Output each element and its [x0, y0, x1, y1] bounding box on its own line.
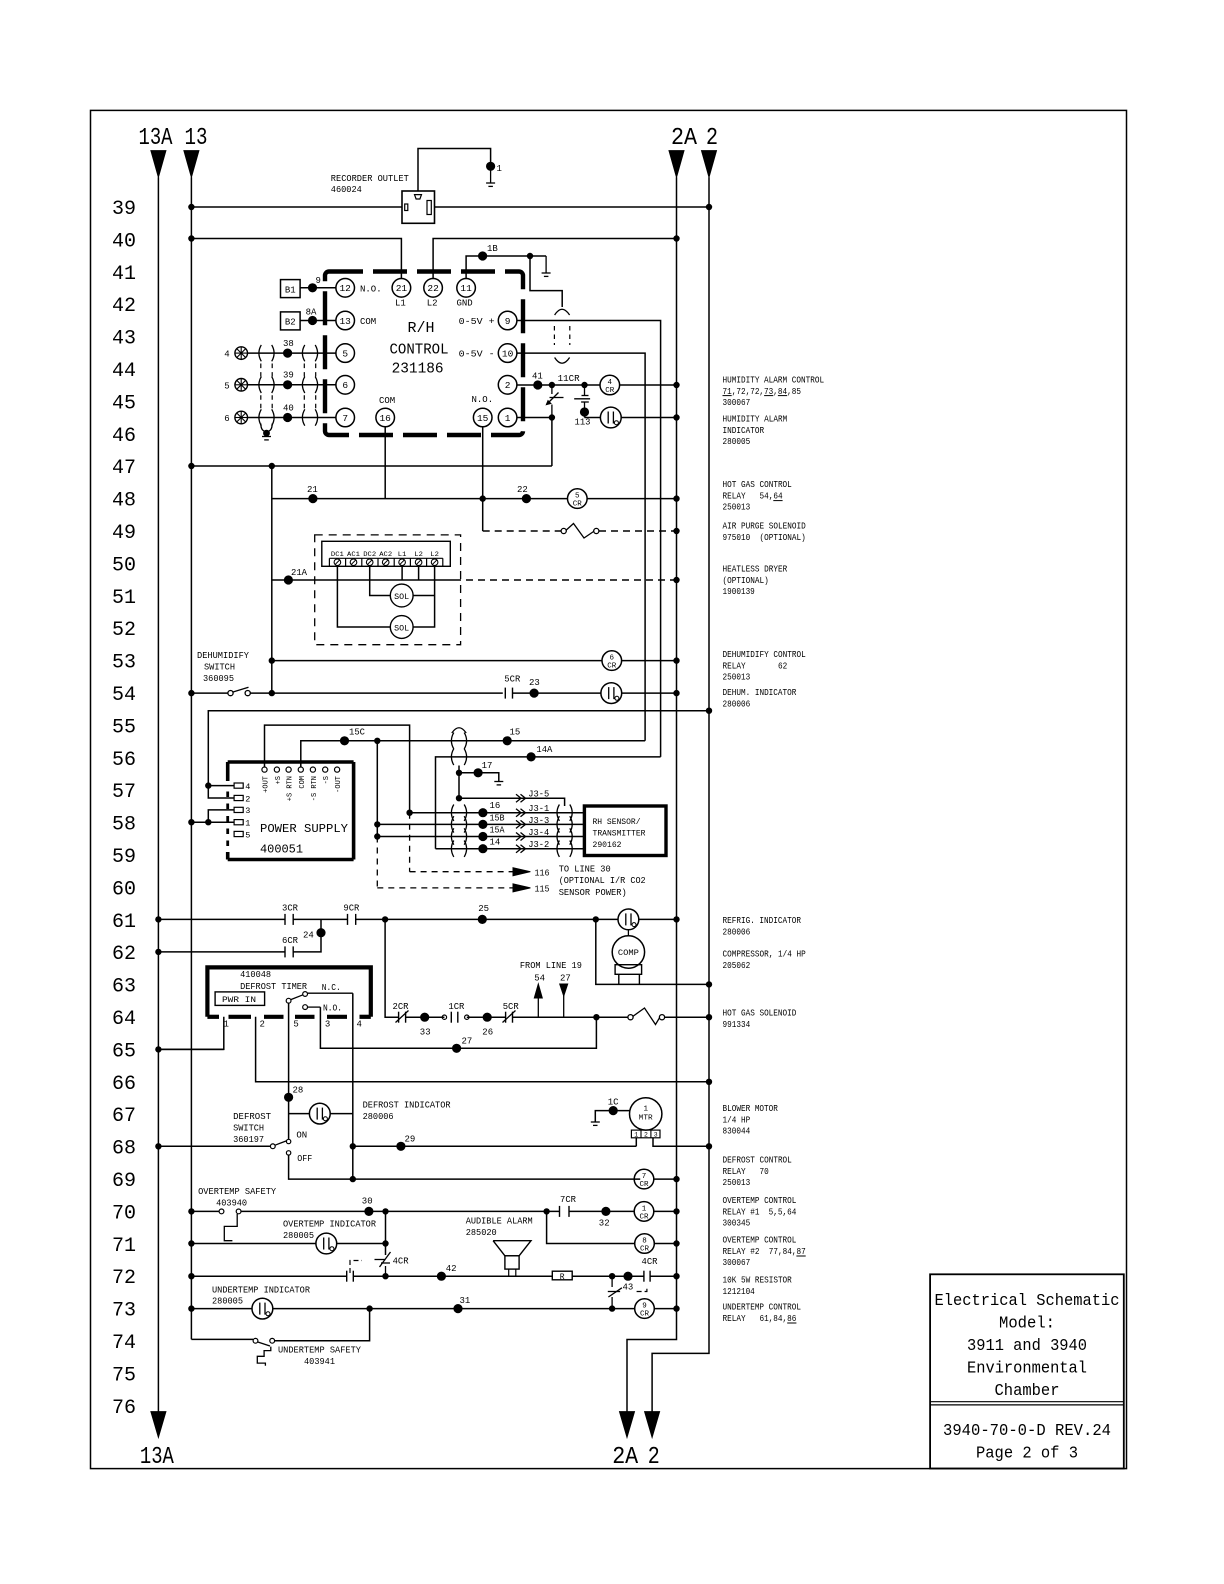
cable shield 9/10 wires [555, 309, 570, 315]
svg-text:MTR: MTR [639, 1115, 654, 1123]
svg-text:4: 4 [608, 379, 613, 387]
svg-text:9CR: 9CR [343, 904, 360, 914]
svg-text:10: 10 [502, 349, 514, 360]
svg-text:1: 1 [505, 413, 511, 424]
svg-text:6CR: 6CR [282, 936, 299, 946]
svg-text:HUMIDITY ALARM CONTROL: HUMIDITY ALARM CONTROL [723, 376, 825, 386]
node 2A top arrow [669, 151, 684, 178]
wire outlet to node 1 [418, 149, 491, 192]
svg-text:39: 39 [112, 198, 136, 221]
svg-text:32: 32 [599, 1219, 610, 1229]
svg-text:-S RTN: -S RTN [311, 776, 319, 801]
node 15 [503, 737, 511, 745]
wire B2 to pin 13 [300, 320, 336, 322]
wire rung 53 [272, 660, 602, 662]
junction 16 line [407, 810, 412, 815]
junction rung 70 indicator drop [383, 1209, 388, 1214]
wire pin 16 down [384, 427, 386, 499]
svg-text:RELAY 62: RELAY 62 [723, 661, 788, 671]
junction rung 72 43 drop [609, 1274, 614, 1279]
svg-text:45: 45 [112, 392, 136, 415]
wire node 21A line [272, 579, 454, 581]
svg-text:26: 26 [482, 1028, 493, 1038]
hot gas solenoid valve [628, 1015, 633, 1020]
wire refrig indicator to bus 2A [639, 918, 677, 920]
defrost timer PWR IN [215, 992, 265, 1006]
junction rung 73 drop [609, 1306, 614, 1311]
svg-text:J3-2: J3-2 [528, 840, 549, 850]
junction 17 branch [456, 770, 461, 775]
power supply top terminals [262, 767, 267, 772]
cable shield sensor left [451, 805, 453, 821]
svg-text:3: 3 [325, 1020, 330, 1030]
junction solenoid bus 2 [706, 1015, 711, 1020]
wire solenoid to bus 2 [665, 1016, 709, 1018]
wire timer pin 2 to rung 66 [256, 1017, 709, 1082]
svg-text:RELAY #2 77,84,87: RELAY #2 77,84,87 [723, 1247, 806, 1257]
svg-text:4CR: 4CR [393, 1257, 410, 1267]
sensor 113 element [584, 385, 586, 395]
svg-text:BLOWER MOTOR: BLOWER MOTOR [723, 1104, 779, 1114]
wire 6CR to bus 2A [622, 660, 677, 662]
svg-text:61: 61 [112, 911, 136, 934]
svg-text:71: 71 [112, 1235, 136, 1258]
svg-text:55: 55 [112, 716, 136, 739]
junction rung 40 bus 2A [674, 236, 679, 241]
junction J3-5 [456, 796, 461, 801]
cable shield sensor right [557, 805, 559, 821]
svg-text:14: 14 [490, 838, 501, 848]
svg-text:52: 52 [112, 619, 136, 642]
svg-text:12: 12 [339, 283, 351, 294]
defrost timer 410048 box [207, 967, 370, 1016]
wire bus 13A [157, 177, 159, 1411]
svg-text:300067: 300067 [723, 1258, 751, 1268]
svg-text:16: 16 [490, 801, 501, 811]
svg-text:280005: 280005 [283, 1231, 314, 1241]
node 21A [284, 576, 292, 584]
svg-text:250013: 250013 [723, 673, 751, 683]
wire rung 62 to rung 61 [293, 919, 321, 952]
wire 15B line [377, 823, 584, 825]
svg-text:L2: L2 [414, 551, 423, 558]
svg-text:FROM LINE 19: FROM LINE 19 [520, 961, 582, 971]
svg-text:40: 40 [283, 403, 294, 413]
wire rung 73 left [191, 1308, 252, 1310]
svg-text:CR: CR [573, 501, 583, 509]
svg-text:39: 39 [283, 371, 294, 381]
junction rung 48 air purge [480, 496, 485, 501]
svg-text:21A: 21A [291, 568, 308, 578]
wire rung 64 from rung 61 [385, 919, 399, 1017]
svg-text:5CR: 5CR [503, 1002, 520, 1012]
svg-text:2: 2 [648, 1444, 660, 1471]
R/H control pin 11 [457, 279, 476, 298]
R/H control pin 2 [498, 376, 517, 395]
svg-text:4: 4 [357, 1020, 362, 1030]
node 43 [624, 1272, 632, 1280]
svg-text:403941: 403941 [304, 1357, 335, 1367]
junction rung 47 dehumidify branch [269, 463, 274, 468]
svg-text:Page 2 of 3: Page 2 of 3 [976, 1445, 1078, 1464]
svg-text:COMPRESSOR, 1/4 HP: COMPRESSOR, 1/4 HP [723, 950, 806, 960]
svg-text:13: 13 [339, 316, 351, 327]
wire 7CR contact to 1CR coil [569, 1210, 634, 1212]
svg-text:RELAY 54,64: RELAY 54,64 [723, 491, 783, 501]
wire power feed loop to bus 2 [208, 711, 709, 786]
wire node 113 to humidity alarm indicator [584, 414, 586, 418]
svg-text:46: 46 [112, 425, 136, 448]
wire terminal DC2 to SOL1 [370, 566, 391, 596]
svg-text:21: 21 [307, 485, 318, 495]
svg-text:43: 43 [112, 328, 136, 351]
R/H control pin 1 [498, 408, 517, 427]
junction rung 69 pin4 line [350, 1176, 355, 1181]
wire 1B to cable shield [530, 256, 562, 307]
svg-text:1: 1 [643, 1106, 648, 1114]
wire terminal L1 down [401, 566, 403, 581]
cable shield 15/14A [451, 733, 453, 749]
wire timer pin 5 down [288, 1003, 290, 1139]
wire terminal L2a down [418, 566, 420, 581]
svg-text:HOT GAS SOLENOID: HOT GAS SOLENOID [723, 1009, 797, 1019]
relay coil 5CR [568, 489, 588, 509]
svg-text:1900139: 1900139 [723, 587, 755, 597]
wire PS +OUT to node 16 line [265, 725, 410, 813]
svg-text:21: 21 [396, 283, 408, 294]
svg-text:290162: 290162 [593, 840, 622, 850]
junction rung 70 bus 13 [189, 1209, 194, 1214]
wire 15A line [377, 836, 584, 838]
wire rung 61 mid [293, 918, 347, 920]
svg-text:8A: 8A [306, 308, 317, 318]
wire rung 54 mid [250, 692, 502, 694]
node 14A [527, 753, 535, 761]
terminal B2 [281, 312, 301, 330]
wire indicator drop vertical [385, 1211, 387, 1255]
node 9 [308, 284, 316, 292]
relay coil 6CR [602, 651, 622, 671]
svg-text:33: 33 [420, 1028, 431, 1038]
svg-text:2: 2 [706, 125, 718, 152]
svg-text:GND: GND [457, 299, 473, 309]
svg-text:AC1: AC1 [347, 551, 360, 558]
svg-text:L2: L2 [430, 551, 439, 558]
svg-text:RH SENSOR/: RH SENSOR/ [593, 817, 641, 827]
contact 9CR vertical [611, 1276, 613, 1287]
svg-text:285020: 285020 [466, 1228, 497, 1238]
svg-text:22: 22 [427, 283, 439, 294]
junction rung 72 bus 13 [189, 1274, 194, 1279]
svg-text:280006: 280006 [723, 927, 751, 937]
svg-text:RELAY 61,84,86: RELAY 61,84,86 [723, 1314, 797, 1324]
svg-text:N.C.: N.C. [322, 983, 341, 993]
svg-text:OFF: OFF [297, 1154, 312, 1164]
svg-text:6: 6 [224, 414, 229, 424]
svg-text:8: 8 [642, 1238, 647, 1246]
svg-text:REFRIG. INDICATOR: REFRIG. INDICATOR [723, 916, 802, 926]
R/H control pin 10 [498, 344, 517, 363]
wire timer pin 1 [158, 1017, 223, 1050]
R/H control pin 22 [424, 279, 443, 298]
wire rung 71 left [191, 1243, 316, 1245]
svg-text:DEFROST CONTROL: DEFROST CONTROL [723, 1156, 792, 1166]
wire pin 11 to node 1B [466, 256, 546, 279]
svg-text:15B: 15B [490, 814, 506, 824]
relay coil 1CR [634, 1202, 654, 1222]
R/H control pin 6 [336, 376, 355, 395]
svg-text:DC2: DC2 [363, 551, 376, 558]
audible alarm 285020 [493, 1241, 531, 1256]
svg-text:7: 7 [642, 1173, 647, 1181]
svg-text:250013: 250013 [723, 503, 751, 513]
wire PS COM to node 15C line [301, 741, 645, 767]
junction 1CR bus 2A [674, 1209, 679, 1214]
wire SOL1 to L2b [413, 595, 435, 597]
wire overtemp indicator to drop [337, 1243, 386, 1245]
svg-text:72: 72 [112, 1267, 136, 1290]
R/H control pin 9 [498, 311, 517, 330]
svg-text:75: 75 [112, 1364, 136, 1387]
svg-text:54: 54 [534, 974, 545, 984]
svg-text:6: 6 [610, 655, 615, 663]
node 32 [602, 1207, 610, 1215]
svg-text:Electrical Schematic: Electrical Schematic [935, 1292, 1120, 1311]
R/H control pin 7 [336, 408, 355, 427]
wire 8CR feed [547, 1211, 635, 1243]
node 1C [609, 1107, 617, 1115]
junction 4CR bus 2A [674, 382, 679, 387]
svg-text:24: 24 [303, 931, 314, 941]
relay coil 7CR [634, 1169, 654, 1189]
svg-text:9: 9 [316, 276, 321, 286]
node 15B [479, 820, 487, 828]
svg-text:J3-4: J3-4 [528, 828, 549, 838]
svg-text:231186: 231186 [392, 361, 444, 378]
svg-text:73: 73 [112, 1300, 136, 1323]
junction 6CR bus 2A [674, 658, 679, 663]
svg-text:AUDIBLE ALARM: AUDIBLE ALARM [466, 1217, 533, 1227]
node 27 rung 65 [453, 1044, 461, 1052]
svg-text:DEHUMIDIFY: DEHUMIDIFY [197, 651, 250, 661]
svg-text:1C: 1C [608, 1098, 619, 1108]
svg-text:50: 50 [112, 554, 136, 577]
wire bus 13 to PS terminal 1 [191, 821, 234, 823]
svg-text:R/H: R/H [408, 320, 435, 337]
defrost timer switch [286, 998, 291, 1003]
wire pin 10 to node 15 [517, 353, 645, 741]
dehumidify switch 360095 [228, 691, 233, 696]
wire 5CR to bus 2A [587, 498, 676, 500]
svg-text:COMP: COMP [618, 949, 639, 958]
svg-text:2: 2 [260, 1020, 265, 1030]
wire 1CR to bus 2A [654, 1210, 677, 1212]
svg-text:10K 5W RESISTOR: 10K 5W RESISTOR [723, 1276, 793, 1286]
svg-text:2: 2 [245, 794, 250, 804]
wire rung 62 left [158, 951, 285, 953]
junction 5CR bus 2A [674, 496, 679, 501]
R/H control pin 12 [336, 279, 355, 298]
svg-text:3: 3 [245, 806, 250, 816]
relay coil 9CR [635, 1299, 655, 1319]
svg-text:SOL: SOL [394, 624, 409, 633]
svg-text:57: 57 [112, 781, 136, 804]
node 14 [479, 845, 487, 853]
junction 7CR bus 2A [674, 1176, 679, 1181]
svg-text:UNDERTEMP INDICATOR: UNDERTEMP INDICATOR [212, 1285, 311, 1295]
svg-text:31: 31 [460, 1296, 471, 1306]
junction refrig bus 2A [674, 917, 679, 922]
wire terminal DC1 to SOL2 [337, 566, 390, 628]
junction 15B branch [375, 738, 380, 743]
wire node 16 line [410, 812, 585, 814]
svg-text:N.O.: N.O. [472, 395, 494, 405]
blower motor MTR [630, 1098, 662, 1130]
svg-text:47: 47 [112, 457, 136, 480]
svg-text:1212104: 1212104 [723, 1287, 755, 1297]
node 26 [483, 1013, 491, 1021]
svg-text:1: 1 [642, 1205, 647, 1213]
svg-text:56: 56 [112, 749, 136, 772]
junction rung 71 drop [383, 1241, 388, 1246]
svg-text:HUMIDITY ALARM: HUMIDITY ALARM [723, 415, 788, 425]
svg-text:POWER SUPPLY: POWER SUPPLY [260, 822, 348, 836]
svg-text:2CR: 2CR [393, 1002, 410, 1012]
svg-text:64: 64 [112, 1008, 136, 1031]
arrow node 116 [513, 868, 530, 876]
wire 115 dashed [376, 837, 378, 888]
compressor COMP [612, 936, 644, 968]
R/H control pin 21 [392, 279, 411, 298]
svg-text:13A: 13A [139, 125, 173, 152]
svg-text:74: 74 [112, 1332, 136, 1355]
svg-text:49: 49 [112, 522, 136, 545]
wire rung 73 mid [273, 1308, 635, 1310]
wire B1 to pin 12 [300, 287, 336, 289]
svg-text:ON: ON [296, 1131, 307, 1141]
svg-text:27: 27 [560, 974, 571, 984]
node 16 [479, 809, 487, 817]
node 2 top arrow [702, 151, 717, 178]
svg-text:76: 76 [112, 1397, 136, 1420]
node 113 [580, 408, 588, 416]
solenoid SOL1 [390, 584, 413, 607]
svg-text:22: 22 [517, 485, 528, 495]
svg-text:SWITCH: SWITCH [204, 663, 235, 673]
svg-text:CR: CR [607, 663, 617, 671]
RH sensor/transmitter 290162 [584, 806, 666, 856]
svg-text:CR: CR [639, 1213, 649, 1221]
air purge flow switch [561, 528, 566, 533]
wire pin 15 down [482, 427, 484, 531]
svg-text:2: 2 [505, 380, 511, 391]
svg-text:B2: B2 [285, 318, 296, 328]
svg-text:5: 5 [293, 1020, 298, 1030]
wire 1CR to 5CR [467, 1016, 506, 1018]
wire 8CR to bus 2A [654, 1243, 676, 1245]
ground at 1B [545, 256, 547, 273]
junction rung 61 defrost drop [382, 917, 387, 922]
node 31 [454, 1305, 462, 1313]
svg-text:UNDERTEMP SAFETY: UNDERTEMP SAFETY [278, 1346, 362, 1356]
svg-text:AIR PURGE SOLENOID: AIR PURGE SOLENOID [723, 522, 806, 532]
junction 8CR bus 2A [674, 1241, 679, 1246]
svg-text:975010 (OPTIONAL): 975010 (OPTIONAL) [723, 533, 806, 543]
svg-text:3CR: 3CR [282, 904, 299, 914]
svg-text:HOT GAS CONTROL: HOT GAS CONTROL [723, 480, 792, 490]
wire bus 2 [652, 177, 709, 1411]
overtemp indicator [316, 1233, 337, 1254]
svg-text:+S: +S [275, 776, 283, 784]
label J3-2 [516, 845, 521, 853]
ground at motor [591, 1121, 600, 1123]
node 22 [522, 495, 530, 503]
node 42 [437, 1272, 445, 1280]
svg-text:14A: 14A [536, 745, 553, 755]
svg-text:59: 59 [112, 846, 136, 869]
cable shield lamps column A [259, 345, 261, 361]
svg-text:L1: L1 [398, 551, 407, 558]
wire 5CR to solenoid [513, 1016, 628, 1018]
wire terminal L2b to SOL2 [413, 566, 435, 628]
junction 21A bus 2A [674, 577, 679, 582]
junction 11CR branch [549, 382, 554, 387]
junction rung 72 bus 2A [674, 1274, 679, 1279]
svg-text:INDICATOR: INDICATOR [723, 426, 765, 436]
node 2 bottom arrow [645, 1412, 660, 1438]
svg-text:-OUT: -OUT [335, 776, 343, 793]
recorder outlet 460024 [402, 191, 435, 223]
node 38 [284, 349, 292, 357]
node 21 [309, 495, 317, 503]
junction pin1 11CR [549, 415, 554, 420]
label J3-1 [516, 809, 521, 817]
svg-text:Chamber: Chamber [995, 1382, 1060, 1401]
svg-text:COM: COM [379, 396, 395, 406]
wire rung 54 left [191, 692, 228, 694]
junction dehum bus 2A [674, 690, 679, 695]
svg-text:SWITCH: SWITCH [233, 1124, 264, 1134]
svg-text:60: 60 [112, 878, 136, 901]
svg-text:15: 15 [477, 413, 489, 424]
svg-text:J3-5: J3-5 [528, 790, 549, 800]
R/H control pin 16 [376, 408, 395, 427]
svg-text:N.O.: N.O. [323, 1004, 342, 1014]
defrost indicator [309, 1103, 330, 1124]
junction loop bus 2 [706, 708, 711, 713]
svg-text:23: 23 [529, 678, 540, 688]
junction rung 40 bus 13 [189, 236, 194, 241]
svg-text:360197: 360197 [233, 1135, 264, 1145]
svg-text:9: 9 [642, 1303, 647, 1311]
svg-text:0-5V +: 0-5V + [459, 317, 495, 327]
junction motor bus 2 [706, 1144, 711, 1149]
wire 4CR to bus 2A [620, 384, 677, 386]
svg-text:PWR IN: PWR IN [222, 996, 256, 1005]
svg-text:53: 53 [112, 652, 136, 675]
svg-text:41: 41 [532, 372, 543, 382]
svg-text:42: 42 [446, 1264, 457, 1274]
svg-text:62: 62 [112, 943, 136, 966]
wire rung 40 L2 return [433, 239, 676, 279]
junction rung 68 bus 13A [156, 1144, 161, 1149]
junction rung 71 bus 13 [189, 1241, 194, 1246]
wire rung 65 [158, 1048, 223, 1050]
junction rung 68 pin4 line [350, 1144, 355, 1149]
line numbers 39-76 [112, 198, 136, 1420]
wire pin5 to indicator [289, 1113, 310, 1115]
svg-text:63: 63 [112, 976, 136, 999]
